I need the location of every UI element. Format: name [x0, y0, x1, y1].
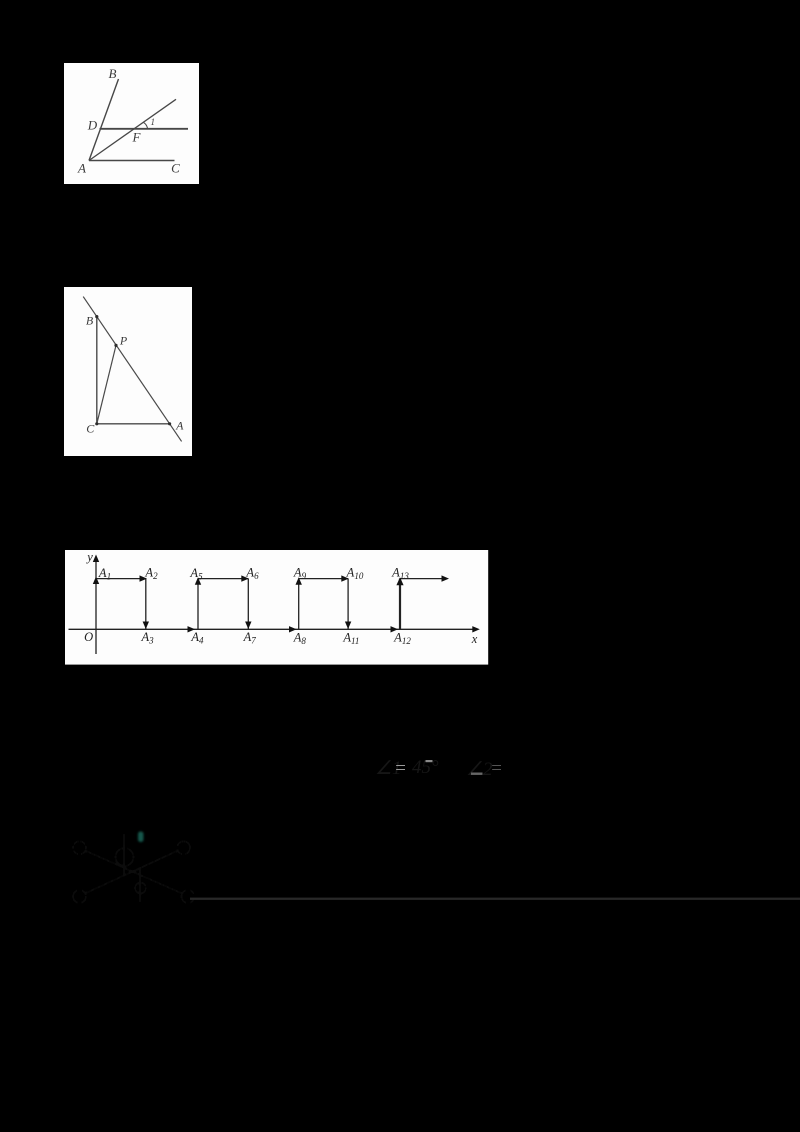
svg-text:A: A — [175, 418, 184, 432]
svg-text:y: y — [85, 550, 93, 564]
svg-text:P: P — [119, 334, 128, 348]
svg-text:B: B — [109, 66, 117, 81]
svg-text:O: O — [84, 630, 93, 644]
svg-text:∠2: ∠2 — [466, 759, 493, 780]
svg-text:D: D — [87, 118, 98, 133]
svg-text:B: B — [86, 313, 94, 327]
svg-text:C: C — [171, 161, 180, 176]
svg-text:A: A — [77, 161, 86, 176]
svg-text:=: = — [394, 758, 407, 779]
svg-text:1: 1 — [151, 117, 156, 127]
svg-text:C: C — [86, 422, 95, 436]
svg-text:F: F — [132, 130, 142, 145]
svg-text:=: = — [490, 758, 503, 779]
svg-text:x: x — [471, 632, 478, 646]
